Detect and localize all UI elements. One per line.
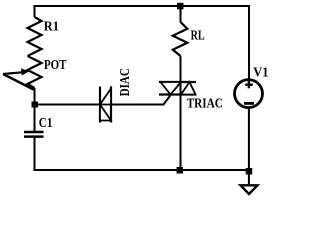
svg-text:C1: C1 [39, 116, 53, 131]
resistor R1 [28, 17, 42, 56]
capacitor C1 [24, 131, 44, 134]
wire top rail from R1 top to V1 top [35, 6, 250, 80]
diac D1 [99, 87, 101, 123]
wire V1 to bottom node [248, 107, 250, 170]
resistor RL [173, 22, 188, 56]
wire DIAC to TRIAC gate [111, 95, 171, 105]
wire node J1 to DIAC [37, 104, 100, 106]
wire TRIAC to bottom rail [180, 95, 182, 171]
wire TRIAC through symbol [180, 82, 182, 95]
svg-text:POT: POT [44, 58, 67, 73]
voltage source V1 [235, 80, 263, 108]
potentiometer POT [28, 56, 42, 88]
node J2 top junction [177, 3, 184, 10]
svg-text:TRIAC: TRIAC [187, 96, 223, 111]
ground [241, 185, 258, 194]
node J3 junction TRIAC/bottom rail [177, 167, 184, 174]
wire RL to TRIAC [180, 56, 182, 82]
node J4 junction V1/ground [246, 168, 253, 175]
wire POT to node [34, 88, 36, 102]
node J1 junction POT/C1/DIAC [32, 102, 39, 108]
svg-text:R1: R1 [44, 20, 59, 35]
wire node to ground [248, 174, 250, 185]
svg-text:DIAC: DIAC [118, 68, 133, 96]
svg-text:V1: V1 [253, 66, 268, 81]
svg-text:RL: RL [191, 29, 205, 44]
wire C1 to bottom rail [35, 137, 250, 170]
wire top node to RL [180, 6, 182, 22]
triac Q1 [159, 81, 196, 83]
wire node to C1 [34, 107, 36, 132]
